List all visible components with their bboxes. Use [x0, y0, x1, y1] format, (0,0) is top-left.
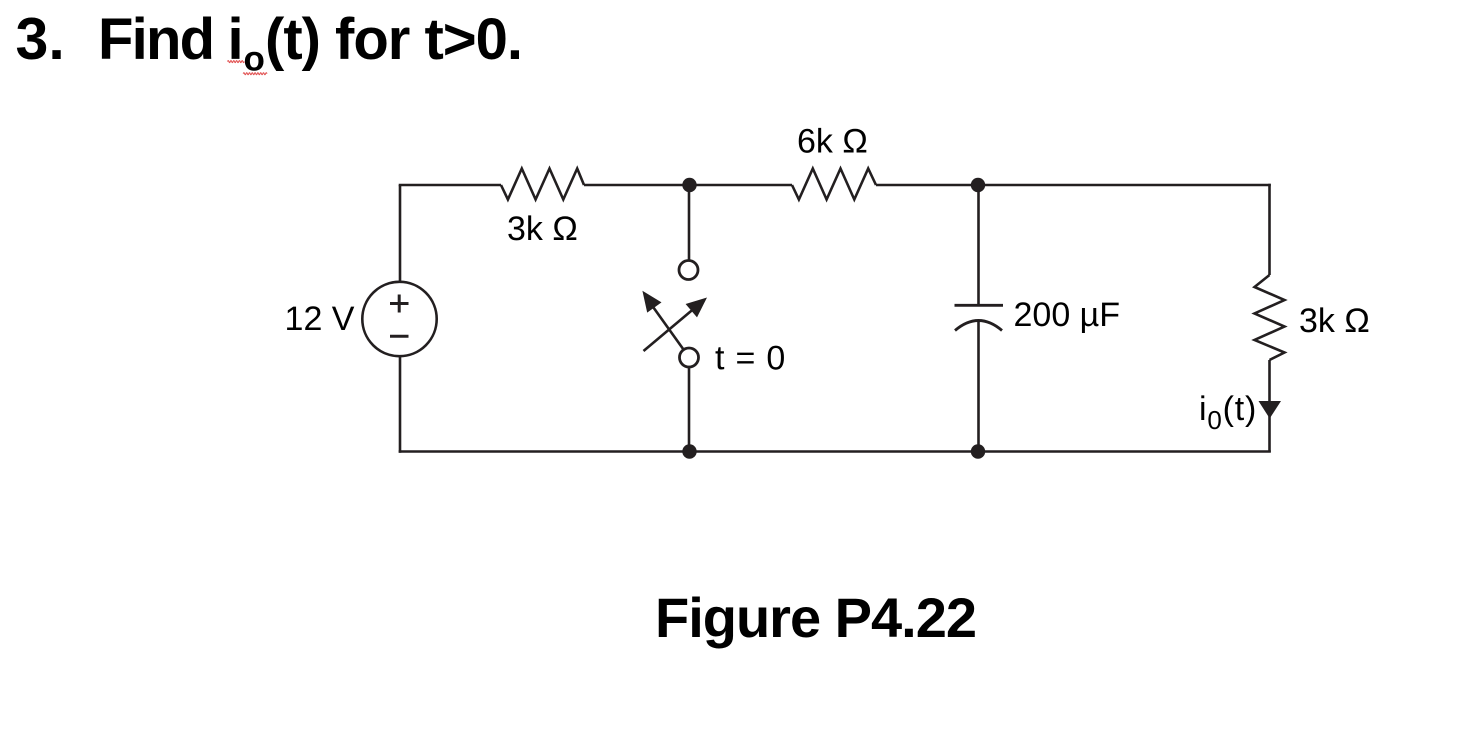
current arrow io(t) [1259, 401, 1282, 419]
resistor R1 3k ohm [501, 169, 584, 200]
wire bottom rail [399, 450, 1271, 453]
svg-text:3k Ω: 3k Ω [1299, 302, 1370, 340]
node A top switch junction [682, 178, 696, 192]
wire capacitor upper stub [977, 185, 980, 305]
switch blade arrow up-left [642, 291, 683, 350]
wire capacitor lower stub [977, 321, 980, 452]
switch blade arrow up-right [644, 298, 708, 352]
svg-text:6k Ω: 6k Ω [797, 123, 868, 161]
svg-text:3.: 3. [16, 6, 65, 72]
resistor R3 3k ohm vertical [1255, 275, 1285, 360]
wire left vertical bottom (source to bottom rail) [399, 356, 402, 453]
svg-text:i0(t): i0(t) [1199, 390, 1257, 435]
resistor R2 6k ohm [792, 169, 876, 200]
node B top capacitor junction [971, 178, 985, 192]
spellcheck squiggle under i [228, 61, 245, 63]
wire right vertical bottom [1268, 360, 1271, 452]
capacitor C1 top plate [955, 304, 1004, 307]
svg-text:(t) for t>0.: (t) for t>0. [265, 7, 522, 72]
node C bottom capacitor junction [971, 444, 985, 458]
svg-text:12 V: 12 V [285, 300, 355, 338]
wire top rail middle [584, 184, 792, 187]
voltage source V1 12V circle [362, 282, 436, 356]
node D bottom switch junction [682, 444, 696, 458]
wire switch upper stub [688, 185, 691, 261]
svg-text:200 µF: 200 µF [1013, 296, 1120, 334]
minus sign of source [390, 335, 409, 338]
wire right vertical top [1268, 184, 1271, 275]
svg-text:t = 0: t = 0 [715, 339, 786, 377]
switch upper terminal circle [679, 261, 698, 280]
svg-text:3k Ω: 3k Ω [507, 210, 578, 248]
wire left vertical top (source to top rail) [399, 185, 402, 283]
plus sign of source [390, 295, 409, 313]
wire top rail right [876, 184, 1271, 187]
spellcheck squiggle under o [243, 73, 267, 75]
svg-text:Find i: Find i [98, 7, 242, 72]
svg-text:Figure P4.22: Figure P4.22 [655, 586, 976, 649]
capacitor C1 bottom plate arc [955, 321, 1002, 331]
switch lower terminal circle [680, 348, 699, 367]
wire top rail left [399, 184, 501, 187]
wire switch lower stub [688, 367, 691, 452]
